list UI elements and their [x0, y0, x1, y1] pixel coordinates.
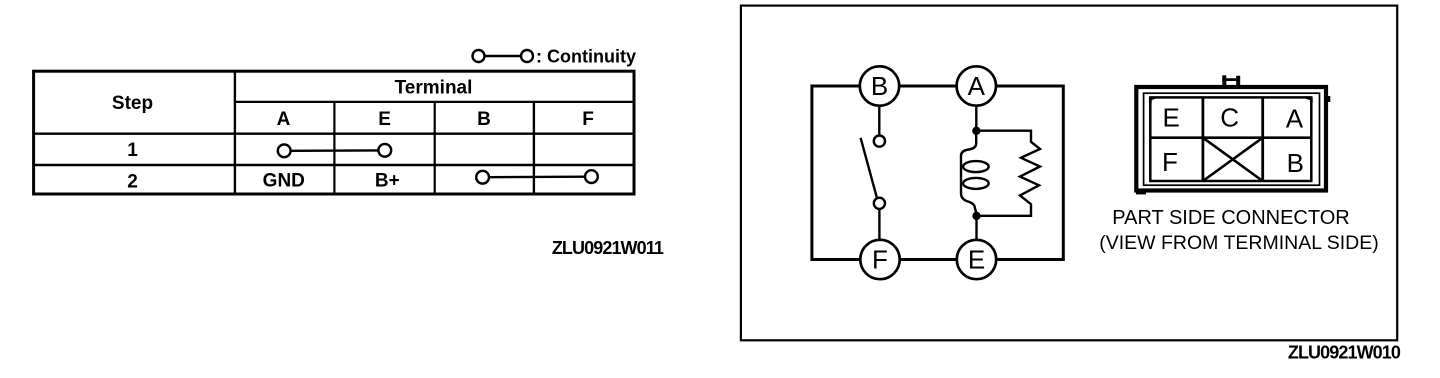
- connector grid vertical divider 2: [1261, 97, 1264, 181]
- svg-text:C: C: [1220, 102, 1239, 132]
- continuity legend symbol: [473, 50, 534, 62]
- svg-text:ZLU0921W010: ZLU0921W010: [1288, 343, 1401, 363]
- svg-text:B: B: [477, 109, 491, 130]
- table line under row 1: [34, 164, 634, 166]
- coil L (relay winding): [961, 132, 989, 213]
- connector cavity frame: [1150, 97, 1311, 181]
- svg-text:E: E: [968, 245, 985, 275]
- switch contact (bottom): [874, 198, 885, 209]
- svg-text:A: A: [968, 71, 986, 101]
- wire switch to F: [878, 209, 880, 241]
- svg-text:E: E: [378, 109, 391, 130]
- terminal B: [860, 66, 899, 105]
- connector grid horizontal divider: [1150, 136, 1311, 139]
- wire bottom middle (E to F): [900, 258, 958, 261]
- table line under Terminal header: [235, 101, 634, 103]
- table divider E|B: [434, 102, 436, 194]
- wire top edge right + right edge + bottom right (A to E): [996, 86, 1064, 260]
- svg-text:2: 2: [127, 171, 138, 192]
- figure frame (right panel): [741, 6, 1397, 341]
- svg-text:F: F: [872, 245, 888, 275]
- svg-text:1: 1: [127, 140, 138, 161]
- connector shell key notch (right): [1327, 96, 1330, 102]
- continuity symbol row 1 (A-E): [278, 144, 391, 157]
- connector grid vertical divider 1: [1202, 97, 1205, 181]
- terminal F: [860, 240, 899, 279]
- svg-text:: Continuity: : Continuity: [536, 47, 636, 67]
- svg-text:ZLU0921W011: ZLU0921W011: [552, 238, 664, 258]
- node junction dot (top): [972, 127, 980, 135]
- svg-text:(VIEW FROM TERMINAL SIDE): (VIEW FROM TERMINAL SIDE): [1099, 232, 1379, 254]
- svg-text:F: F: [582, 109, 594, 130]
- svg-text:Terminal: Terminal: [395, 77, 473, 98]
- relay circuit outline wires: [812, 86, 1063, 260]
- switch contact (top): [874, 136, 885, 147]
- wire top edge left (rect corner to B): [812, 86, 861, 260]
- table divider A|E: [333, 102, 335, 194]
- svg-text:GND: GND: [263, 171, 305, 192]
- wire bottom node to E: [975, 216, 977, 241]
- connector outer shell: [1136, 87, 1326, 191]
- svg-text:E: E: [1163, 102, 1180, 132]
- table column divider Step|Terminal: [234, 71, 236, 194]
- node junction dot (bottom): [972, 212, 980, 220]
- svg-text:B: B: [1287, 148, 1304, 178]
- svg-text:F: F: [1162, 147, 1178, 177]
- connector lock tab: [1222, 75, 1240, 86]
- terminal E: [957, 240, 996, 279]
- svg-text:A: A: [277, 109, 291, 130]
- connector blocked cavity X: [1203, 138, 1263, 181]
- connector shell foot (bottom-left): [1136, 192, 1146, 194]
- test table outer border: [34, 71, 634, 194]
- svg-text:PART SIDE CONNECTOR: PART SIDE CONNECTOR: [1112, 207, 1349, 229]
- switch blade: [861, 138, 878, 199]
- wire A to top node: [975, 106, 977, 131]
- connector corner tick top-left: [1150, 97, 1155, 103]
- table divider B|F: [533, 102, 535, 194]
- continuity symbol row 2 (B-F): [476, 170, 598, 183]
- table line under header row: [34, 132, 634, 134]
- wire top edge middle (B to A): [899, 85, 957, 88]
- terminal A: [957, 66, 996, 105]
- wire B to switch: [878, 106, 880, 136]
- svg-text:Step: Step: [112, 93, 153, 114]
- connector inner frame: [1144, 93, 1320, 185]
- resistor (parallel with coil): [977, 131, 1041, 216]
- svg-text:B: B: [871, 71, 888, 101]
- svg-text:A: A: [1286, 104, 1304, 134]
- connector corner tick top-right: [1306, 97, 1311, 103]
- svg-text:B+: B+: [375, 171, 400, 192]
